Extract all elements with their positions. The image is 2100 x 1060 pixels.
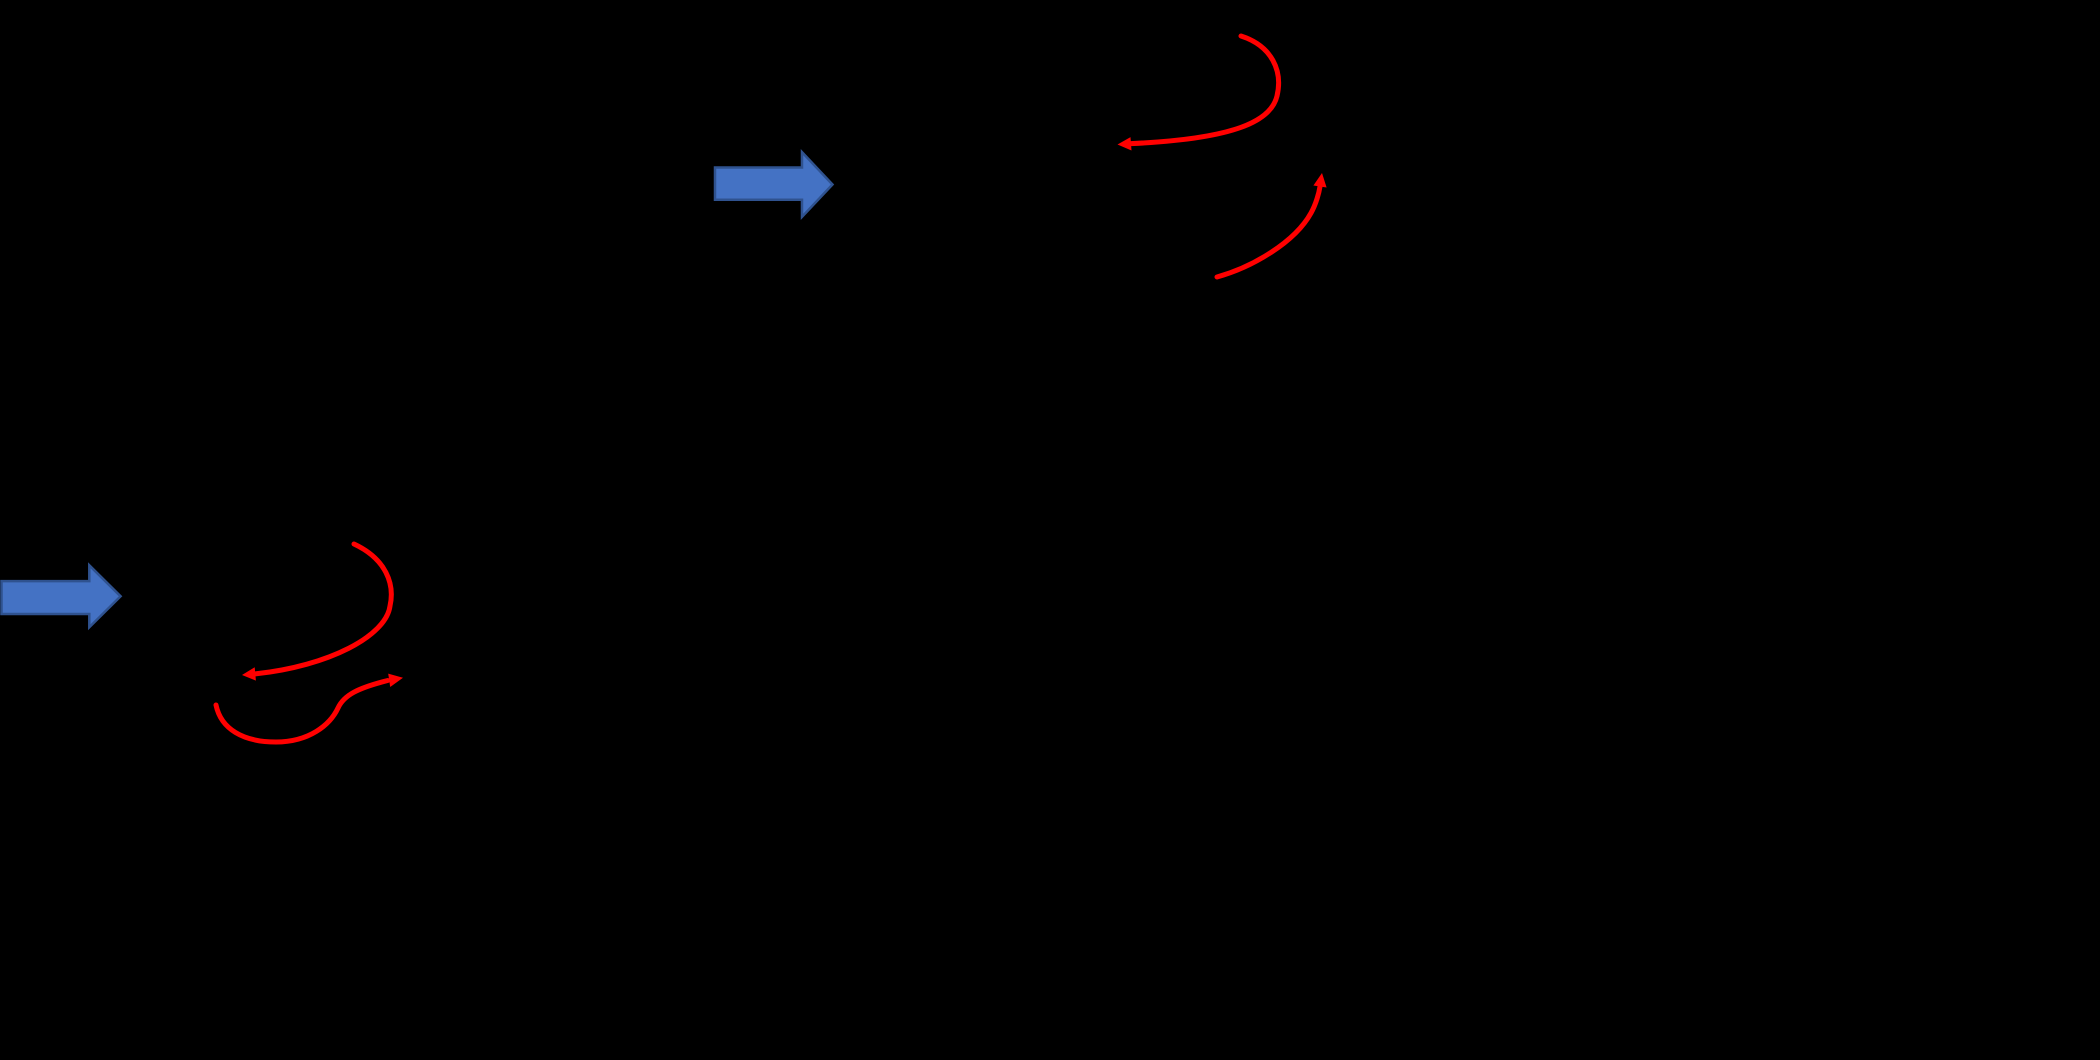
blue block reaction arrow (top middle) bbox=[715, 152, 833, 217]
red curved mechanism arrow B1 (left group, hook sweeping left) bbox=[242, 544, 391, 681]
red curved mechanism arrow B2 (left group, S-curve to the right) bbox=[216, 674, 403, 742]
red curved mechanism arrow A2 (top group, rising to upper right) bbox=[1217, 173, 1327, 277]
red curved mechanism arrow A1 (top group, hook sweeping left) bbox=[1118, 36, 1279, 151]
blue block reaction arrow (left edge) bbox=[2, 565, 121, 627]
